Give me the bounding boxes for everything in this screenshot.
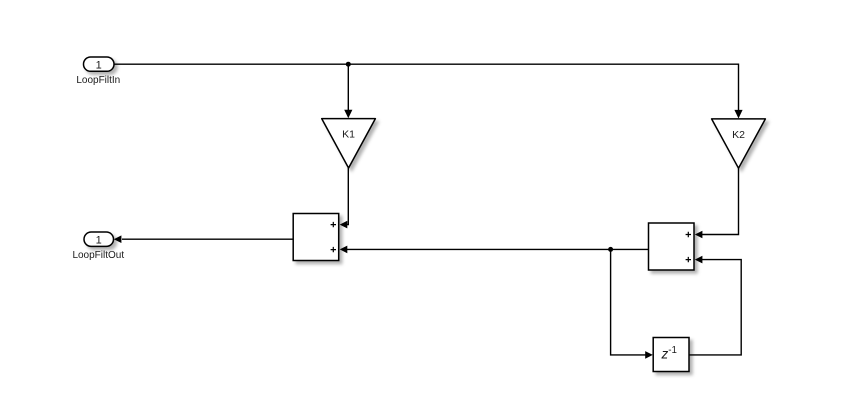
outport LoopFiltOut — [72, 232, 124, 261]
sum block Sum2 — [649, 223, 695, 270]
wire K2 output to Sum2 top input — [695, 168, 739, 238]
wire junction down to Unit Delay input — [611, 249, 653, 358]
svg-text:K2: K2 — [732, 129, 745, 141]
wire junction down to K1 — [344, 64, 352, 118]
svg-text:LoopFiltOut: LoopFiltOut — [72, 250, 124, 261]
wire main from Inport to K2 corner — [114, 64, 739, 112]
wire Unit Delay output to Sum2 bottom input — [689, 256, 741, 355]
unit delay block z^-1 — [653, 338, 689, 372]
arrowhead into K2 — [734, 110, 742, 119]
wire K1 output to Sum1 top input — [340, 168, 349, 228]
node junction above K1 — [346, 62, 351, 67]
wire Sum2 output to Sum1 bottom input — [340, 246, 649, 254]
svg-text:LoopFiltIn: LoopFiltIn — [76, 75, 120, 86]
wire Sum1 output to Outport — [114, 235, 293, 243]
svg-text:1: 1 — [96, 234, 102, 246]
sum block Sum1 — [293, 214, 339, 261]
svg-text:-1: -1 — [668, 345, 677, 356]
svg-text:1: 1 — [96, 59, 102, 71]
svg-text:K1: K1 — [342, 129, 355, 141]
svg-text:z: z — [661, 347, 669, 362]
gain K1 — [322, 119, 376, 168]
node junction on feedback — [608, 247, 613, 252]
gain K2 — [712, 119, 766, 168]
inport LoopFiltIn — [76, 57, 120, 86]
